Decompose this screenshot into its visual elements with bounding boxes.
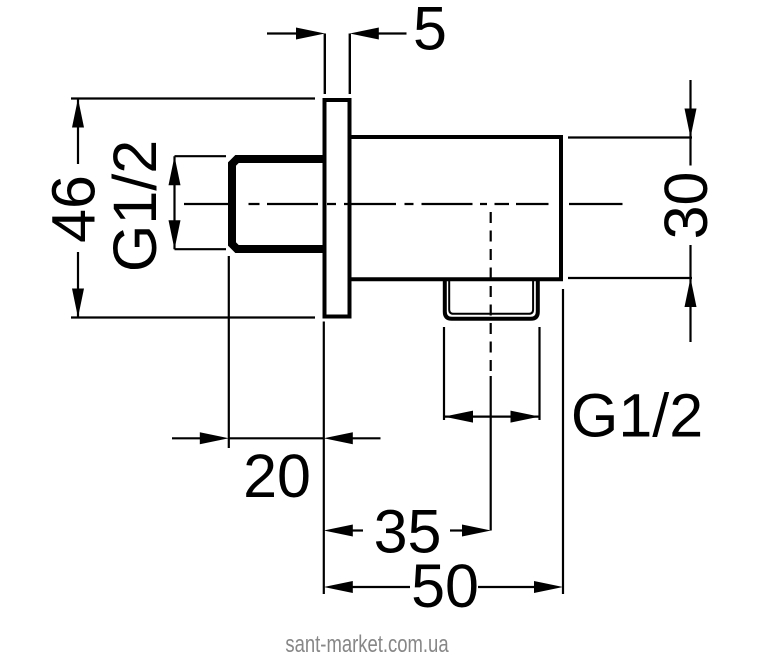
wall plate (flange) — [325, 100, 350, 317]
dimension 46: bottom arrowhead — [72, 289, 84, 318]
port thread dimension: bottom extension line — [175, 248, 227, 250]
dimension 35: right line stub — [450, 529, 464, 531]
svg-text:G1/2: G1/2 — [101, 140, 169, 272]
svg-text:G1/2: G1/2 — [571, 382, 703, 450]
dimension 20: right arrowhead (points left) — [324, 432, 353, 444]
outlet width dimension: right extension line — [538, 327, 540, 420]
bottom outlet inner thread line — [449, 281, 533, 314]
dimension 50: left arrowhead (points left) — [324, 581, 353, 593]
dimension 5: left extension line — [324, 34, 326, 95]
dimension 20: dimension line middle — [229, 437, 324, 439]
dimension 30: top arrowhead (points down) — [685, 109, 697, 138]
dimension 20: left arrowhead (points right) — [200, 432, 229, 444]
body (main block) — [350, 137, 561, 279]
svg-text:50: 50 — [411, 552, 479, 620]
dimension 50: right line segment — [478, 586, 536, 588]
dimension 30: top extension line — [568, 136, 692, 138]
svg-text:30: 30 — [652, 172, 720, 240]
dimension 20: left extension line — [228, 256, 230, 448]
bottom outlet (threaded, outer outline) — [445, 280, 538, 319]
dimension 5: right arrow tail — [377, 32, 407, 34]
port thread dimension: top extension line — [175, 155, 227, 157]
wall port (threaded inlet, thick thread lines) — [232, 159, 324, 249]
svg-text:5: 5 — [413, 0, 447, 63]
svg-text:20: 20 — [243, 442, 311, 510]
dimension 35: left line stub — [351, 529, 363, 531]
vertical centerline of bottom outlet (solid extension to 35 dim) — [490, 376, 492, 531]
vertical centerline of bottom outlet (dashed part) — [490, 212, 492, 376]
dimension 20: left arrow tail — [172, 437, 202, 439]
dimension 35: right arrowhead (points right) — [462, 525, 491, 537]
outlet width dimension: right arrowhead (points right) — [511, 411, 540, 423]
shared extension line at wall face (for 20/35/50) — [323, 322, 325, 595]
port thread dimension G1/2: dimension line — [173, 156, 175, 249]
dimension 5: left arrow tail — [267, 32, 298, 34]
port thread dimension: bottom arrowhead — [169, 220, 181, 249]
dimension 30: bottom arrowhead (points up) — [685, 278, 697, 307]
dimension 50: left line segment — [351, 586, 410, 588]
outlet width dimension: line — [444, 416, 540, 418]
outlet width dimension: left extension line — [443, 327, 445, 420]
dimension 46: top arrowhead — [72, 99, 84, 128]
dimension 5: left arrowhead — [296, 28, 325, 40]
dimension 30: bottom extension line — [568, 277, 692, 279]
dimension 46: dimension line (broken for text) — [77, 99, 79, 318]
dimension 46: top extension line — [71, 97, 315, 99]
dimension 50: right extension line (from body right face) — [562, 289, 564, 594]
dimension 30: dimension line (broken for text) — [689, 80, 691, 342]
horizontal centerline (axis of wall port) — [184, 203, 623, 205]
svg-text:46: 46 — [40, 175, 108, 243]
dimension 46: bottom extension line — [71, 316, 315, 318]
outlet width dimension: left arrowhead (points left) — [444, 411, 473, 423]
dimension 5: right arrowhead — [350, 28, 379, 40]
port thread dimension: top arrowhead — [169, 156, 181, 185]
dimension 5: right extension line — [349, 34, 351, 95]
dimension 35: left arrowhead (points left) — [324, 525, 353, 537]
svg-text:sant-market.com.ua: sant-market.com.ua — [285, 631, 448, 658]
dimension 50: right arrowhead (points right) — [534, 581, 563, 593]
dimension 20: right arrow tail — [351, 437, 381, 439]
